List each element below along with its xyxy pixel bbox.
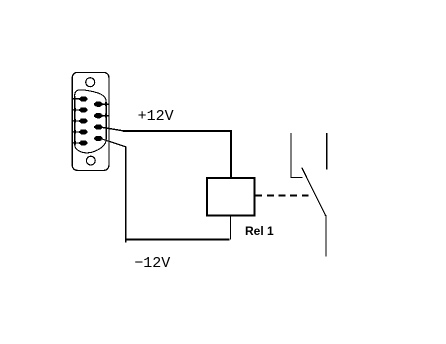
relay contact: common lead down (325, 215, 327, 257)
pin 5 lead with arrow (72, 142, 80, 144)
wire +12V: vertical segment down to relay coil (230, 130, 232, 178)
pin 3 lead with arrow (72, 120, 80, 122)
svg-text:−12V: −12V (134, 255, 170, 272)
pin 4 (79, 129, 87, 134)
connector X1 D-sub face (tilted D shape) (75, 90, 107, 153)
wire -12V: vertical segment down (125, 146, 127, 242)
pin 6 (94, 102, 102, 107)
pin 9 (94, 136, 102, 141)
dashed mechanical link from relay coil to contact arm (255, 194, 310, 196)
connector X1 top mounting hole (86, 78, 95, 87)
pin 6 lead with arrow (101, 103, 109, 105)
pin 8 (94, 125, 102, 130)
pin 1 (79, 96, 87, 101)
relay contact: moving arm (diagonal) (302, 168, 326, 216)
wire: relay coil bottom lead up from -12V rail (230, 216, 232, 240)
connector X1 (DB9 female, side view) body outline (72, 72, 109, 170)
svg-text:+12V: +12V (138, 108, 174, 125)
relay contact: right fixed terminal (326, 133, 328, 169)
wire +12V: pin 8 to corner (diagonal segment) (101, 127, 124, 131)
pin 1 lead (72, 98, 80, 100)
wire +12V: horizontal segment to relay column (123, 130, 232, 132)
pin 2 lead with arrow (72, 109, 80, 111)
pin 7 lead with arrow (101, 115, 109, 117)
wire -12V: bottom horizontal segment (125, 238, 229, 240)
relay contact: left fixed terminal (L-shaped) (291, 133, 303, 177)
pin 3 (79, 118, 87, 123)
pin 2 (79, 107, 87, 112)
connector X1 bottom mounting hole (86, 156, 95, 165)
svg-text:Rel 1: Rel 1 (245, 224, 274, 238)
pin 4 lead with arrow (72, 131, 80, 133)
relay coil Rel 1 (box) (207, 178, 255, 216)
pin 7 (94, 113, 102, 118)
pin 5 (79, 140, 87, 145)
wire -12V: pin 9 to corner (diagonal segment) (101, 139, 126, 147)
